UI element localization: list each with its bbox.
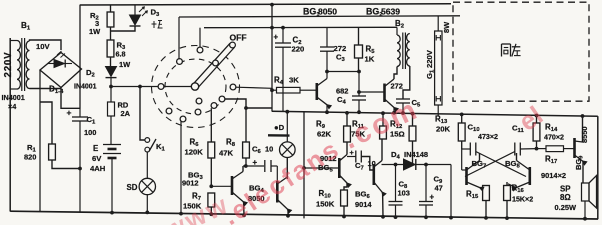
capacitor C2 220uF — [282, 28, 284, 43]
svg-text:+: + — [253, 158, 258, 167]
svg-text:8Ω: 8Ω — [560, 193, 571, 202]
svg-text:6V: 6V — [92, 154, 102, 163]
svg-text:220V: 220V — [425, 49, 434, 68]
resistor R12 15ohm — [412, 114, 414, 126]
label hong (red) char — [153, 21, 155, 28]
capacitor C5 272 — [403, 66, 410, 99]
thick mark under ZD label — [268, 134, 290, 137]
resistor R9 62K — [346, 113, 348, 126]
resistor R16 15Kx2 — [506, 182, 508, 186]
wire mid supply rail (feeds audio section) — [272, 111, 598, 116]
rotary contacts — [197, 47, 203, 53]
svg-text:1W: 1W — [89, 27, 101, 36]
transistor BG5 9012 — [338, 158, 341, 178]
wire secondary top to bridge — [30, 40, 62, 50]
wire R13 node to BG7 base — [461, 149, 463, 170]
rotary selector dashed outer circle — [152, 46, 240, 128]
svg-text:+: + — [430, 193, 435, 202]
svg-text:8W: 8W — [442, 21, 451, 33]
wire primary to left border — [10, 40, 17, 42]
resistor R14 470x2 — [536, 116, 538, 124]
wire top border (+V rail along top) — [80, 4, 451, 5]
svg-text:272: 272 — [391, 82, 403, 91]
wire BG3 collector node — [243, 165, 264, 167]
capacitor C3 272 — [326, 28, 328, 48]
capacitor C7 10 — [347, 156, 356, 158]
capacitor C10 473x2 — [462, 148, 471, 150]
svg-text:1W: 1W — [119, 60, 131, 69]
rotary wiper lever — [194, 44, 234, 87]
fuse RD 2A — [110, 87, 112, 103]
transistor BG3 9012 — [231, 176, 234, 195]
rotary selector dashed inner circle — [165, 59, 226, 114]
wire top distribution y=16 (to second lamp channel) — [179, 16, 460, 17]
resistor R15 — [485, 201, 487, 218]
svg-text:9014×2: 9014×2 — [541, 171, 566, 180]
svg-text:SD: SD — [127, 183, 138, 192]
svg-text:IN4001: IN4001 — [2, 93, 25, 102]
transistor BG1 8050 — [315, 83, 318, 100]
svg-text:47K: 47K — [219, 149, 234, 158]
wire BG1 collector node to R5/C4/BG2 base node — [327, 71, 359, 73]
transistor BG7 9014 — [465, 167, 468, 185]
svg-text:8050: 8050 — [318, 7, 337, 17]
svg-text:150K: 150K — [316, 200, 335, 209]
resistor R10 150K — [343, 206, 345, 217]
wire inner contact to mid rail (audio supply) — [225, 99, 272, 108]
resistor R17 — [537, 148, 547, 150]
diode D2 IN4001 — [106, 67, 117, 77]
resistor R4 3K — [272, 89, 277, 91]
wire bridge minus rail x=40 — [39, 70, 41, 212]
bridge inner diode symbol — [54, 60, 65, 68]
capacitor C8 103 — [395, 165, 397, 202]
svg-text:●D: ●D — [274, 123, 285, 132]
wire BG6 collector to D4 — [382, 164, 452, 166]
svg-text:6.8: 6.8 — [116, 50, 126, 59]
svg-text:+: + — [67, 108, 72, 118]
transistor BG9 8550 — [573, 138, 576, 158]
resistor R8 47K — [245, 108, 247, 142]
diode D4 IN4148 — [404, 159, 416, 170]
svg-text:100: 100 — [84, 128, 96, 137]
resistor R1 820 — [40, 102, 52, 144]
transistor BG2 5639 — [383, 84, 386, 103]
wire right contact to bus — [236, 87, 272, 88]
svg-text:9014: 9014 — [355, 200, 372, 209]
speaker SP 8ohm 0.25W — [582, 183, 590, 201]
wire battery positive node to rotary wiper — [111, 86, 192, 88]
svg-text:473×2: 473×2 — [478, 133, 498, 141]
battery E 6V 4AH — [103, 144, 121, 146]
wire secondary bottom to bridge — [30, 88, 62, 90]
rotary pivot — [191, 83, 198, 90]
wire D4 node down to rail — [450, 165, 452, 218]
wire vertical divider x=304 down to ground — [303, 112, 305, 218]
svg-text:IN4001: IN4001 — [74, 84, 97, 91]
svg-text:15K×2: 15K×2 — [512, 196, 533, 204]
svg-text:220V: 220V — [3, 52, 14, 78]
svg-text:+: + — [274, 33, 279, 42]
capacitor C9 47 electrolytic — [425, 165, 427, 202]
svg-text:4AH: 4AH — [90, 164, 106, 173]
svg-text:0.25W: 0.25W — [555, 203, 578, 212]
wire bottom contact to ground — [180, 121, 182, 213]
switch K1 — [140, 87, 145, 141]
svg-text:820: 820 — [24, 153, 36, 162]
svg-text:9012: 9012 — [182, 179, 199, 188]
wire contact to y=16 rail — [178, 17, 180, 59]
wire contact to y=27 rail — [199, 28, 201, 48]
svg-text:OFF: OFF — [230, 33, 247, 43]
svg-text:3K: 3K — [289, 76, 299, 85]
label tongzuo (same-as-left) chinese chars — [501, 44, 503, 57]
wire input to BG5 base — [304, 167, 338, 169]
svg-text:120K: 120K — [185, 148, 204, 157]
fluorescent tube G1 220V 8W — [437, 16, 439, 31]
svg-text:8550: 8550 — [580, 126, 589, 143]
wire cross coupling X — [476, 152, 526, 177]
resistor R2 3 1W — [110, 5, 112, 12]
lamp ZD (chime indicator) — [286, 112, 288, 142]
wire distribution y=27 (to inverter stage) — [204, 26, 397, 28]
svg-text:E: E — [93, 144, 98, 153]
LED D3 red — [134, 5, 136, 16]
wire plus rail x=80 (top border corner to C1) — [79, 5, 81, 109]
dashed box (second channel, same as left) — [453, 2, 589, 101]
bridge rectifier D1-4 diamond — [40, 53, 82, 88]
transformer B2 — [396, 27, 398, 35]
transistor BG6 9014 — [372, 164, 375, 185]
wire bridge bottom U-link — [61, 88, 80, 109]
resistor R13 20K — [461, 114, 463, 123]
svg-text:10V: 10V — [36, 42, 51, 51]
wire vertical bus x=272 from top border to mid rail — [271, 4, 273, 111]
resistor R7 150K — [210, 207, 212, 214]
wire right border — [597, 116, 599, 219]
resistor R11 75K — [382, 113, 384, 126]
resistor R5 1K — [358, 28, 360, 46]
svg-text:IN4148: IN4148 — [404, 150, 428, 159]
wire node to C4 and BG2 base — [358, 72, 360, 97]
wire left border (mains input side) — [9, 38, 11, 212]
svg-text:1K: 1K — [365, 55, 375, 64]
svg-text:103: 103 — [398, 189, 410, 198]
resistor R3 6.8 1W — [110, 57, 112, 66]
capacitor C1 100uF — [72, 116, 88, 118]
svg-text:47: 47 — [435, 184, 443, 193]
svg-text:470×2: 470×2 — [544, 134, 564, 142]
capacitor C6 10 — [264, 160, 266, 172]
resistor R6 120K — [210, 108, 212, 142]
wire bottom border (ground rail) — [10, 211, 598, 219]
transistor BG4 8050 — [276, 166, 278, 181]
svg-text:5639: 5639 — [381, 7, 400, 17]
svg-text:×4: ×4 — [8, 102, 16, 111]
svg-text:220: 220 — [292, 45, 305, 54]
capacitor C11 — [514, 143, 516, 156]
svg-text:10: 10 — [265, 145, 273, 154]
svg-text:20K: 20K — [436, 125, 451, 134]
capacitor C4 682 — [352, 95, 366, 97]
transistor BG8 9014 (mirrored) — [528, 167, 531, 185]
svg-text:2A: 2A — [121, 109, 131, 118]
lamp SD (emergency light) — [139, 178, 155, 194]
transformer B1 — [17, 41, 20, 89]
